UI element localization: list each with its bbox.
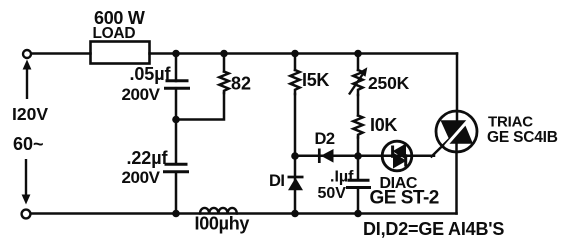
arrow down to bottom terminal <box>25 159 27 196</box>
svg-text:200V: 200V <box>122 85 161 104</box>
svg-text:DI,D2=GE AI4B'S: DI,D2=GE AI4B'S <box>363 219 504 239</box>
wire: node to C3 <box>357 156 360 180</box>
TRIAC symbol <box>436 111 477 152</box>
wire: R2 bottom to node at y156 <box>294 94 297 156</box>
svg-text:50V: 50V <box>318 185 347 202</box>
resistor R1 82 <box>219 72 228 94</box>
arrow up to top terminal <box>26 67 28 99</box>
inductor L1 100uhy <box>200 208 237 214</box>
wire: 10K to node y156 <box>357 138 360 157</box>
capacitor C3 .1uf 50V <box>349 179 368 182</box>
wire: branch x=358 top <box>357 54 360 71</box>
capacitor C2 .22uf 200V <box>166 163 186 166</box>
node dot bottom x358 <box>354 210 362 218</box>
svg-text:D2: D2 <box>315 130 335 148</box>
wire bottom rail <box>30 212 457 215</box>
resistor R4 10K <box>353 116 362 138</box>
diode D1 (vertical, points up) <box>288 176 304 179</box>
svg-text:GE ST-2: GE ST-2 <box>370 188 439 209</box>
capacitor C1 .05uf 200V <box>167 79 187 82</box>
svg-text:DI: DI <box>269 172 285 190</box>
wire: gate diagonal into triac <box>432 139 451 157</box>
svg-text:I00µhy: I00µhy <box>195 214 250 234</box>
terminal top (120V) <box>23 50 31 58</box>
svg-text:82: 82 <box>231 74 251 94</box>
wire: branch x=176 upper <box>175 54 178 82</box>
svg-text:GE SC4IB: GE SC4IB <box>487 129 558 146</box>
svg-text:I0K: I0K <box>370 115 397 135</box>
node dot x358 y156 <box>354 152 362 160</box>
svg-text:.05µf: .05µf <box>130 64 172 84</box>
node dot top x358 <box>354 50 362 58</box>
node dot top x224 <box>220 50 228 58</box>
svg-text:250K: 250K <box>368 73 410 93</box>
wire: branch x=295 top <box>294 54 297 71</box>
resistor R3 250K <box>353 70 362 95</box>
wire: C2 bottom to bottom rail <box>175 172 178 214</box>
wire: C1 bottom to node <box>175 88 178 119</box>
svg-text:60~: 60~ <box>13 134 44 154</box>
wire: R1 bottom down and left to node <box>176 93 224 120</box>
node dot top x295 <box>291 50 299 58</box>
node dot x295 y156 <box>291 152 299 160</box>
svg-text:200V: 200V <box>122 168 161 187</box>
terminal bottom (60~) <box>22 210 31 219</box>
wire: branch x=224 top <box>223 54 226 72</box>
DIAC symbol <box>382 141 412 171</box>
node dot bottom x176 <box>172 210 180 218</box>
node dot mid x176 y119.5 <box>172 116 180 124</box>
resistor R2 15K <box>290 70 299 94</box>
wire: between 250K and 10K <box>357 95 360 116</box>
wire: triac MT1 down to bottom rail <box>455 143 458 214</box>
wire: D1 to bottom rail <box>294 156 297 214</box>
wire: right vertical to triac MT2 <box>456 54 459 122</box>
svg-text:TRIAC: TRIAC <box>488 114 533 131</box>
wire top: terminal to LOAD <box>31 52 91 55</box>
svg-text:I5K: I5K <box>302 70 329 90</box>
rheostat arrow on 250K <box>349 75 363 95</box>
diode D2 (horizontal, points left) <box>318 149 321 164</box>
svg-text:.22µf: .22µf <box>127 148 169 168</box>
wire: C3 to bottom rail <box>357 188 360 214</box>
wire: horizontal gate line y=156 <box>295 155 434 158</box>
node dot top x176 <box>172 50 180 58</box>
svg-text:I20V: I20V <box>12 104 48 124</box>
svg-text:.Iµf: .Iµf <box>330 169 354 186</box>
node dot bottom x295 <box>291 210 299 218</box>
svg-text:LOAD: LOAD <box>93 25 136 42</box>
wire top: LOAD to right corner <box>150 52 458 55</box>
wire: node to C2 <box>175 120 178 165</box>
resistor LOAD (600 W) <box>91 42 150 64</box>
